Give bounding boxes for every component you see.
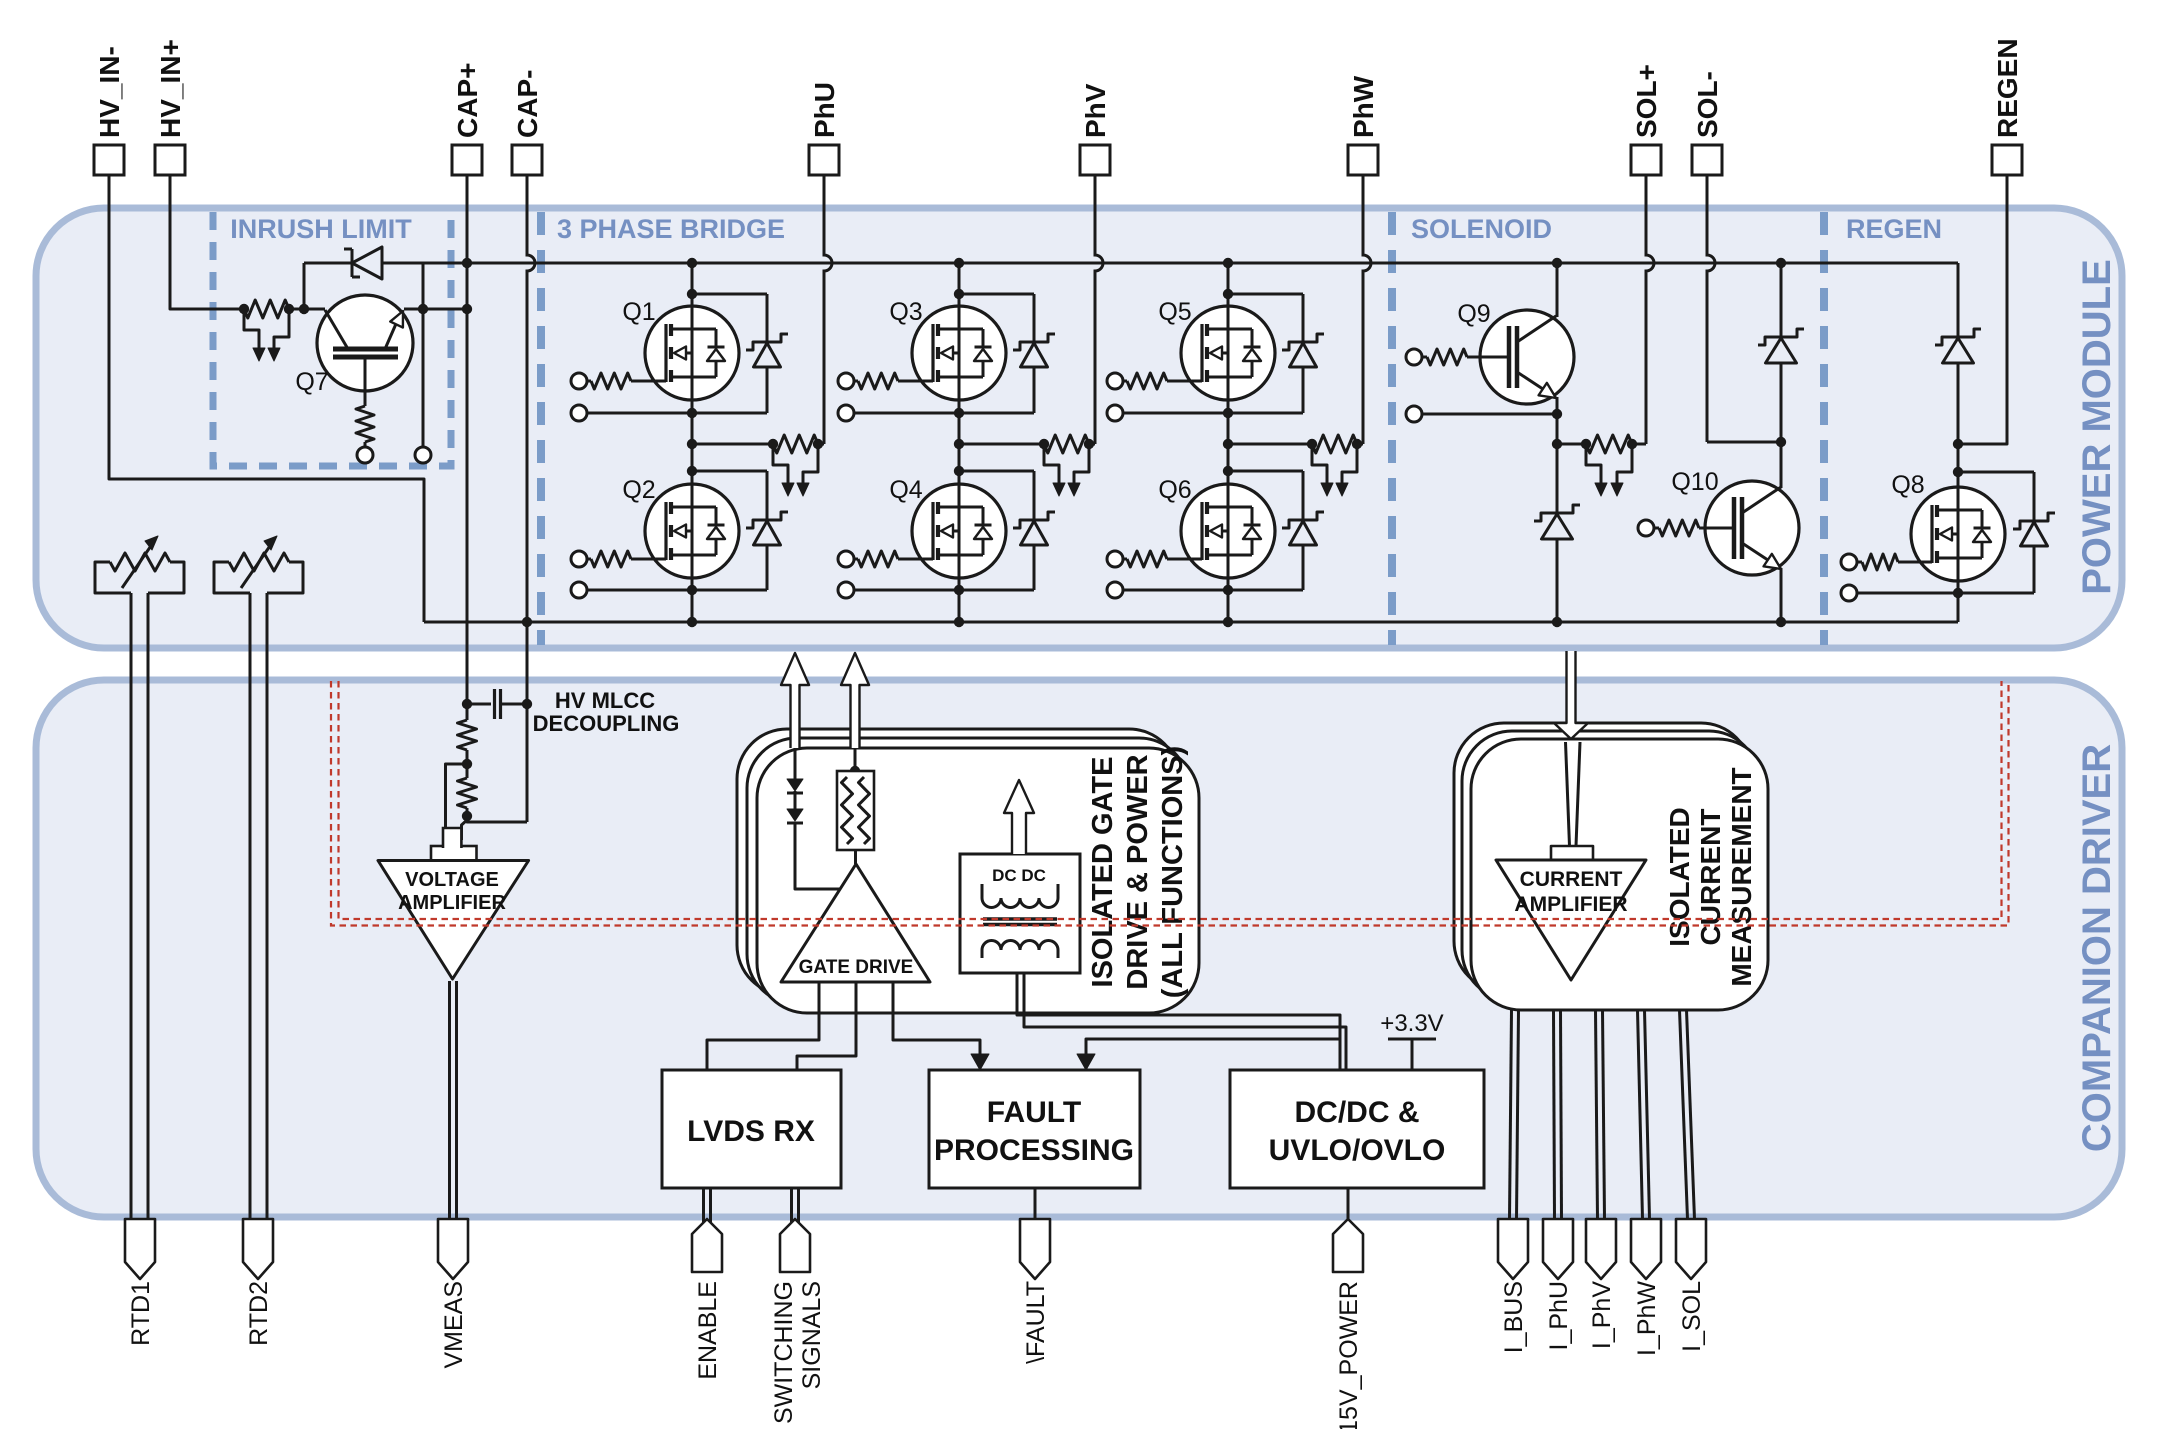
junction Q5 bus — [1223, 258, 1233, 268]
svg-text:Q4: Q4 — [889, 476, 922, 504]
resistor Q4 gate — [854, 558, 858, 561]
MOSFET Q4 — [912, 484, 1006, 578]
wire bypass diode to bus corner — [382, 262, 384, 265]
pin Q9 gate terminal — [1406, 349, 1422, 365]
junction phase node Q1 — [687, 439, 697, 449]
svg-text:Q9: Q9 — [1457, 300, 1490, 328]
wire gate drive to LVDS b — [797, 982, 856, 1070]
pin Q2 source sense terminal — [571, 582, 587, 598]
wire Q4 clamp diode bottom — [1033, 545, 1036, 590]
junction regen node — [1953, 439, 1963, 449]
terminal CAP- — [512, 145, 542, 175]
wire I_PhV pair — [1596, 1010, 1598, 1219]
junction Q4 drain — [954, 466, 964, 476]
TVS clamp diode Q8 — [2013, 513, 2055, 529]
diode inrush bypass — [351, 249, 354, 277]
svg-text:Q2: Q2 — [622, 476, 655, 504]
svg-text:PhW: PhW — [1348, 75, 1379, 138]
junction CAP- to rail — [522, 617, 532, 627]
block LVDS RX — [662, 1070, 841, 1188]
junction Q3 bus — [954, 258, 964, 268]
pin ENABLE — [692, 1219, 722, 1272]
wire DCDC 15V pair — [1017, 973, 1340, 1070]
wire gate drive to LVDS a — [707, 982, 819, 1070]
pin Q7 base terminal — [357, 447, 373, 463]
diode bootstrap 1 — [787, 779, 803, 791]
wire DC- return rail — [424, 621, 1958, 624]
op-amp current amplifier input boss — [1551, 846, 1593, 861]
wire Q1/Q2 drain-source column — [691, 263, 694, 622]
junction Q1 drain — [687, 289, 697, 299]
wire Q5 clamp diode top — [1228, 293, 1303, 296]
terminal PhW — [1348, 145, 1378, 175]
terminal SOL+ — [1631, 145, 1661, 175]
MOSFET Q2 — [645, 484, 739, 578]
wire Q5 source sense row — [1123, 412, 1303, 415]
thermistor RTD2 — [214, 562, 250, 593]
TVS clamp diode Q2 — [746, 512, 788, 528]
wire SOL- lead — [1707, 175, 1715, 442]
svg-text:FAULT: FAULT — [987, 1096, 1081, 1129]
junction divider bottom — [462, 811, 472, 821]
svg-text:RTD2: RTD2 — [245, 1281, 273, 1346]
wire Q3 clamp diode bottom — [1033, 367, 1036, 413]
svg-text:I_BUS: I_BUS — [1500, 1281, 1528, 1353]
junction freewheel bus — [1776, 258, 1786, 268]
svg-text:I_PhV: I_PhV — [1588, 1281, 1616, 1349]
resistor Q8 gate — [1857, 561, 1862, 564]
wire Q2 clamp diode bottom — [766, 545, 769, 590]
svg-text:HV_IN+: HV_IN+ — [155, 39, 186, 138]
svg-text:SOL-: SOL- — [1692, 71, 1723, 138]
terminal CAP+ — [452, 145, 482, 175]
junction Q1 bus — [687, 258, 697, 268]
pin Q5 source sense terminal — [1107, 405, 1123, 421]
wire phase node to gate clamp — [959, 443, 1044, 446]
wire phase node to gate clamp — [1228, 443, 1312, 446]
wire fault out — [1034, 1188, 1037, 1220]
op-amp voltage amplifier input boss — [431, 846, 477, 861]
resistor gate clamp Q3/Q4 — [1044, 435, 1089, 453]
isolated gate drive stacked block — [737, 729, 1179, 995]
junction Q2 drain — [687, 466, 697, 476]
wire inrush right branch — [422, 263, 425, 447]
svg-text:COMPANION DRIVER: COMPANION DRIVER — [2075, 744, 2119, 1152]
wire Q6 clamp diode top — [1228, 470, 1303, 473]
pin Q8 gate terminal — [1841, 554, 1857, 570]
junction Q8 tvs tap — [1953, 467, 1963, 477]
svg-text:CAP+: CAP+ — [452, 63, 483, 138]
pin Q1 source sense terminal — [571, 405, 587, 421]
wire phase PhV lead — [1095, 175, 1103, 444]
wire inrush to Q7 — [289, 308, 325, 311]
companion driver block outline — [36, 680, 2122, 1217]
wire DC+ bus — [384, 262, 1958, 265]
transformer DC DC block — [960, 854, 1080, 973]
wire divider tap to amplifier — [446, 764, 468, 840]
wire Q8 source-drain column — [1957, 444, 1960, 622]
wire Q10 emitter to rail — [1780, 568, 1783, 622]
resistor Q7 base — [364, 391, 367, 406]
wire Q6 source sense row — [1123, 589, 1303, 592]
junction inrush right — [418, 304, 428, 314]
wire Q1 source sense row — [587, 412, 767, 415]
MOSFET Q6 — [1181, 484, 1275, 578]
wire zener to rail — [1556, 539, 1559, 622]
resistor Q1 gate — [587, 380, 591, 383]
svg-text:Q3: Q3 — [889, 298, 922, 326]
pin Q6 gate terminal — [1107, 551, 1123, 567]
wire solenoid freewheel top — [1780, 263, 1783, 337]
arrow gate drive output left — [781, 653, 809, 748]
wire I_PhU pair — [1554, 1010, 1555, 1219]
wire VMEAS pair — [448, 981, 451, 1219]
svg-text:ENABLE: ENABLE — [694, 1281, 722, 1380]
op-amp current amplifier — [1496, 860, 1646, 980]
wire gate drive left branch — [794, 748, 797, 779]
junction Q2 rail — [687, 617, 697, 627]
svg-text:I_PhU: I_PhU — [1545, 1281, 1573, 1350]
svg-text:I_PhW: I_PhW — [1633, 1281, 1661, 1356]
wire Q3/Q4 drain-source column — [958, 263, 961, 622]
solenoid dashed separator — [1388, 212, 1396, 645]
wire Q5 clamp diode bottom — [1302, 367, 1305, 413]
junction Q9 bus — [1552, 258, 1562, 268]
svg-text:DECOUPLING: DECOUPLING — [533, 711, 680, 736]
pin RTD1 — [125, 1219, 155, 1279]
junction resistor pack top — [850, 766, 860, 776]
resistor inrush gate network — [244, 300, 289, 318]
wire gate drive to fault — [893, 982, 980, 1056]
regen dashed separator — [1820, 212, 1828, 645]
wire I_SOL pair — [1680, 1010, 1688, 1219]
svg-text:Q10: Q10 — [1671, 468, 1718, 496]
junction Q9 emitter sense — [1552, 409, 1562, 419]
svg-text:HV_IN-: HV_IN- — [94, 46, 125, 138]
junction phase node Q3 — [954, 439, 964, 449]
wire Q1 clamp diode top — [692, 293, 767, 296]
TVS clamp diode Q1 — [746, 334, 788, 350]
junction divider tap — [462, 759, 472, 769]
junction Q10 rail — [1776, 617, 1786, 627]
junction Q4 source — [954, 585, 964, 595]
svg-text:ISOLATED GATE: ISOLATED GATE — [1087, 757, 1119, 988]
svg-text:AMPLIFIER: AMPLIFIER — [1514, 893, 1627, 916]
IGBT Q10 — [1705, 481, 1799, 575]
MOSFET Q5 — [1181, 306, 1275, 400]
svg-text:HV MLCC: HV MLCC — [555, 688, 655, 713]
thermistor RTD1 — [95, 562, 131, 593]
wire LVDS switching pair — [790, 1188, 793, 1230]
TVS diode solenoid low-side — [1534, 505, 1580, 521]
MOSFET Q3 — [912, 306, 1006, 400]
transistor Q7 internals — [333, 347, 398, 352]
diode bootstrap 2 — [787, 809, 803, 821]
wire power good to fault — [1086, 1039, 1340, 1056]
pin Q2 gate terminal — [571, 551, 587, 567]
junction Q5 drain — [1223, 289, 1233, 299]
svg-text:(ALL FUNCTIONS): (ALL FUNCTIONS) — [1157, 746, 1189, 998]
junction Q3 drain — [954, 289, 964, 299]
svg-text:Q1: Q1 — [622, 298, 655, 326]
wire Q3 source sense row — [854, 412, 1034, 415]
svg-text:SWITCHING: SWITCHING — [770, 1281, 798, 1424]
pin Q10 gate terminal — [1638, 520, 1654, 536]
wire I_PhW pair — [1638, 1010, 1643, 1219]
pin 15V_POWER — [1333, 1219, 1363, 1272]
terminal PhV — [1080, 145, 1110, 175]
pin I_PhW — [1631, 1219, 1661, 1279]
resistor divider upper — [466, 704, 469, 720]
wire Q6 clamp diode bottom — [1302, 545, 1305, 590]
svg-text:+3.3V: +3.3V — [1380, 1010, 1443, 1037]
wire HV_IN+ lead — [170, 175, 244, 309]
wire Q8 sense row — [1857, 592, 2034, 595]
svg-text:CAP-: CAP- — [512, 70, 543, 138]
junction CAP+ bus — [462, 258, 472, 268]
svg-text:DC/DC &: DC/DC & — [1295, 1096, 1420, 1129]
terminal HV_IN- — [94, 145, 124, 175]
pin Q4 source sense terminal — [838, 582, 854, 598]
wire bus to regen diode — [1957, 263, 1960, 337]
wire Q4 source sense row — [854, 589, 1034, 592]
wire LVDS enable pair — [702, 1188, 705, 1230]
svg-text:PhU: PhU — [809, 82, 840, 138]
svg-text:REGEN: REGEN — [1992, 38, 2023, 138]
svg-text:MEASUREMENT: MEASUREMENT — [1726, 767, 1757, 986]
arrow current sense input — [1554, 651, 1588, 739]
junction Q4 rail — [954, 617, 964, 627]
svg-text:Q6: Q6 — [1158, 476, 1191, 504]
resistor Q9 gate — [1422, 356, 1427, 359]
wire CAP+ lead — [466, 175, 469, 704]
svg-text:I_SOL: I_SOL — [1678, 1281, 1706, 1352]
wire phase node to gate clamp — [692, 443, 773, 446]
junction Q1 source — [687, 408, 697, 418]
wire I_BUS pair — [1510, 1010, 1512, 1219]
resistor Q5 gate — [1123, 380, 1127, 383]
wire Q9 sense row — [1422, 413, 1557, 416]
wire Q9 emitter down — [1556, 397, 1559, 513]
svg-text:\FAULT: \FAULT — [1022, 1281, 1050, 1364]
resistor Q10 gate — [1654, 527, 1659, 530]
pin inrush output terminal — [415, 447, 431, 463]
wire bypass to diode — [304, 262, 352, 265]
wire Q10 collector — [1780, 442, 1783, 488]
terminal REGEN — [1992, 145, 2022, 175]
svg-text:ISOLATED: ISOLATED — [1664, 807, 1695, 946]
svg-text:LVDS RX: LVDS RX — [687, 1115, 815, 1148]
wire diodes to gate drive — [795, 823, 846, 889]
wire RTD1 pair — [130, 593, 133, 1219]
TVS clamp diode Q3 — [1013, 334, 1055, 350]
pin I_SOL — [1676, 1219, 1706, 1279]
resistor Q6 gate — [1123, 558, 1127, 561]
svg-text:CURRENT: CURRENT — [1695, 809, 1726, 946]
pin Q4 gate terminal — [838, 551, 854, 567]
svg-text:SOLENOID: SOLENOID — [1411, 214, 1552, 244]
wire Q4 clamp diode top — [959, 470, 1034, 473]
pin Q9 emitter sense terminal — [1406, 406, 1422, 422]
TVS clamp diode Q4 — [1013, 512, 1055, 528]
pin RTD2 — [243, 1219, 273, 1279]
MOSFET Q1 — [645, 306, 739, 400]
svg-text:VOLTAGE: VOLTAGE — [405, 869, 499, 891]
svg-text:REGEN: REGEN — [1846, 214, 1942, 244]
wire CAP- lead — [527, 175, 535, 622]
junction phase node Q5 — [1223, 439, 1233, 449]
3 phase bridge dashed separator — [537, 212, 545, 645]
junction zener rail — [1552, 617, 1562, 627]
wire divider bottom to CAP- — [467, 816, 527, 822]
junction bypass left — [299, 304, 309, 314]
svg-text:RTD1: RTD1 — [127, 1281, 155, 1346]
svg-text:Q7: Q7 — [295, 368, 328, 396]
resistor gate drive pack — [837, 771, 874, 850]
pin Q5 gate terminal — [1107, 373, 1123, 389]
wire Q8 tvs top — [1958, 471, 2034, 474]
wire Q1 clamp diode bottom — [766, 367, 769, 413]
svg-text:SOL+: SOL+ — [1631, 64, 1662, 138]
wire RTD2 pair — [249, 593, 252, 1219]
wire REGEN lead — [1958, 175, 2007, 444]
TVS clamp diode Q6 — [1282, 512, 1324, 528]
svg-text:DRIVE & POWER: DRIVE & POWER — [1122, 754, 1154, 989]
junction CAP+ inrush out — [462, 304, 472, 314]
IGBT Q9 — [1480, 310, 1574, 404]
wire solenoid clamp feed — [1557, 443, 1586, 446]
terminal HV_IN+ — [155, 145, 185, 175]
wire Q7 emitter out — [404, 308, 467, 311]
pin I_PhV — [1586, 1219, 1616, 1279]
diode solenoid freewheel — [1758, 329, 1804, 345]
pin I_PhU — [1543, 1219, 1573, 1279]
svg-text:POWER MODULE: POWER MODULE — [2075, 259, 2119, 595]
pin Q6 source sense terminal — [1107, 582, 1123, 598]
svg-text:INRUSH LIMIT: INRUSH LIMIT — [230, 214, 412, 244]
diode regen blocking — [1935, 329, 1981, 345]
svg-text:3 PHASE BRIDGE: 3 PHASE BRIDGE — [557, 214, 785, 244]
junction decoupling cap right — [522, 699, 532, 709]
transistor Q7 body — [317, 295, 413, 391]
wire 15V power in — [1347, 1188, 1350, 1220]
wire Q2 clamp diode top — [692, 470, 767, 473]
wire freewheel to SOL- node — [1780, 363, 1783, 442]
resistor Q2 gate — [587, 558, 591, 561]
svg-text:DC DC: DC DC — [992, 866, 1046, 885]
pin SWITCHING SIGNALS — [780, 1219, 810, 1272]
pin Q1 gate terminal — [571, 373, 587, 389]
junction Q8 source — [1953, 588, 1963, 598]
resistor divider lower — [466, 764, 469, 778]
junction Q2 source — [687, 585, 697, 595]
junction SOL- node — [1776, 437, 1786, 447]
junction Q6 drain — [1223, 466, 1233, 476]
pin VMEAS — [438, 1219, 468, 1279]
svg-text:PhV: PhV — [1080, 83, 1111, 138]
svg-text:AMPLIFIER: AMPLIFIER — [398, 892, 506, 914]
wire gate drive right branch — [854, 748, 857, 771]
op-amp voltage amplifier — [378, 861, 529, 980]
svg-text:GATE DRIVE: GATE DRIVE — [799, 957, 914, 978]
resistor Q3 gate — [854, 380, 858, 383]
block FAULT PROCESSING — [929, 1070, 1140, 1188]
pin \FAULT — [1020, 1219, 1050, 1279]
arrow gate drive output right — [841, 653, 869, 748]
isolation barrier red dashed — [331, 681, 2009, 926]
MOSFET Q8 — [1911, 487, 2005, 581]
isolated current measurement stacked block — [1454, 723, 1751, 991]
power module block outline — [36, 208, 2122, 648]
terminal SOL- — [1692, 145, 1722, 175]
svg-text:15V_POWER: 15V_POWER — [1335, 1281, 1363, 1429]
capacitor HV MLCC — [467, 703, 491, 706]
transformer DC DC windings — [982, 884, 1058, 908]
wire Q5/Q6 drain-source column — [1227, 263, 1230, 622]
resistor solenoid gate clamp — [1586, 435, 1632, 453]
wire Q8 tvs bottom — [2033, 546, 2036, 593]
wire regen diode to node — [1957, 363, 1960, 444]
resistor gate clamp Q5/Q6 — [1312, 435, 1357, 453]
wire phase PhW lead — [1363, 175, 1371, 444]
inrush limit dashed boundary — [213, 212, 451, 466]
svg-text:SIGNALS: SIGNALS — [798, 1281, 826, 1389]
arrow DC DC output — [1004, 780, 1034, 854]
terminal PhU — [809, 145, 839, 175]
wire current amp input — [1566, 742, 1570, 846]
junction Q6 source — [1223, 585, 1233, 595]
wire Q3 clamp diode top — [959, 293, 1034, 296]
pin Q3 gate terminal — [838, 373, 854, 389]
TVS clamp diode Q5 — [1282, 334, 1324, 350]
block DC/DC & UVLO/OVLO — [1230, 1070, 1484, 1188]
junction Q9 emitter clamp — [1552, 439, 1562, 449]
junction decoupling tap — [462, 699, 472, 709]
wire HV_IN- route — [109, 175, 424, 622]
wire SOL+ lead — [1646, 175, 1654, 444]
wire divider bottom to amplifier — [462, 818, 468, 840]
pin Q8 source sense terminal — [1841, 585, 1857, 601]
svg-text:Q8: Q8 — [1891, 471, 1924, 499]
wire Q9 collector — [1556, 263, 1559, 317]
resistor gate clamp Q1/Q2 — [773, 435, 818, 453]
svg-text:UVLO/OVLO: UVLO/OVLO — [1269, 1134, 1446, 1167]
wire Q2 source sense row — [587, 589, 767, 592]
pin I_BUS — [1498, 1219, 1528, 1279]
junction Q5 source — [1223, 408, 1233, 418]
op-amp gate drive buffer — [781, 864, 930, 982]
wire phase PhU lead — [824, 175, 832, 444]
svg-text:PROCESSING: PROCESSING — [934, 1134, 1134, 1167]
svg-text:VMEAS: VMEAS — [440, 1281, 468, 1369]
svg-text:CURRENT: CURRENT — [1520, 868, 1623, 891]
junction Q6 rail — [1223, 617, 1233, 627]
junction Q3 source — [954, 408, 964, 418]
pin Q3 source sense terminal — [838, 405, 854, 421]
wire bypass branch up-left — [303, 263, 306, 309]
svg-text:Q5: Q5 — [1158, 298, 1191, 326]
